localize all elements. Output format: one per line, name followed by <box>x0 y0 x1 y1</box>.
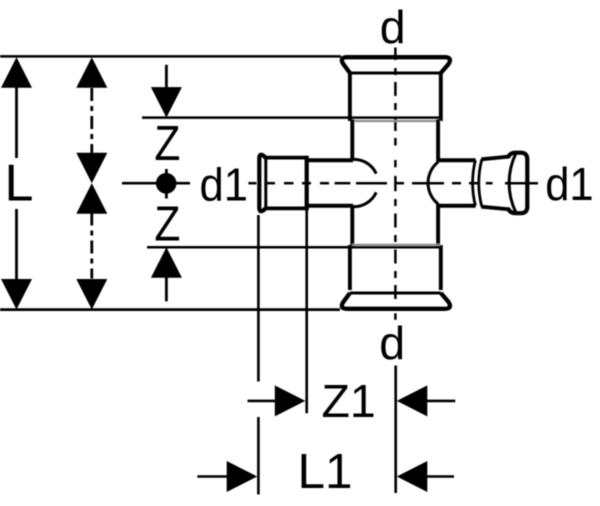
arrow L down <box>1 279 32 310</box>
fitting top socket bead inner line <box>350 72 441 75</box>
fitting right socket bead inner arc <box>509 153 516 212</box>
arrow half bottom down <box>76 279 107 310</box>
extension line socket step (x=306.7) <box>305 210 308 413</box>
dimension L line <box>15 86 18 281</box>
arrow Z top down <box>151 87 182 118</box>
fitting left socket step <box>305 156 309 211</box>
svg-text:L: L <box>5 155 34 213</box>
extension line Z top <box>142 116 441 119</box>
extension line center (x=395.7) <box>394 366 397 494</box>
dimension Z1 tail left <box>248 400 277 403</box>
fitting left socket bead <box>259 155 266 211</box>
extension line Z bottom <box>147 246 441 249</box>
fitting top socket walls <box>348 72 352 121</box>
fitting left tube stub <box>307 158 353 162</box>
svg-text:d: d <box>379 317 405 369</box>
junction arc left lower <box>352 192 376 206</box>
fitting bottom socket bead inner line <box>350 292 441 295</box>
fitting right socket cone lines <box>481 157 510 160</box>
dimension line bottom (overall bottom edge) <box>0 308 340 311</box>
arrow L up <box>1 57 32 88</box>
fitting right tube stub <box>438 158 476 162</box>
dimension half line (dash-dot) <box>90 88 93 279</box>
arrow Z1 left (points right) <box>275 385 306 416</box>
fitting body wall right lower <box>436 205 440 247</box>
fitting top socket bead <box>342 57 450 73</box>
arrow L1 left (points right) <box>227 461 258 492</box>
fitting left socket bead inner line <box>264 158 267 209</box>
fitting body wall left upper <box>350 120 354 160</box>
fitting left socket body lines <box>265 156 307 160</box>
svg-text:d1: d1 <box>200 159 249 211</box>
fitting bottom socket bead <box>342 293 450 309</box>
fitting top socket step (gray) <box>352 120 441 122</box>
dimension line top (overall top edge) <box>0 55 341 58</box>
arrow L1 right (points left) <box>397 461 428 492</box>
svg-text:Z1: Z1 <box>322 375 376 427</box>
arrow half top up <box>76 57 107 88</box>
fitting right socket mouth arcs <box>473 160 476 206</box>
dimension Z1 tail right <box>426 400 455 403</box>
fitting body wall right upper <box>436 120 440 162</box>
arrow half mid up <box>76 183 107 214</box>
dimension L1 tail left <box>197 475 227 478</box>
svg-text:d: d <box>380 1 406 53</box>
svg-text:Z: Z <box>154 117 180 171</box>
svg-text:Z: Z <box>154 197 180 251</box>
arrow half mid down <box>76 153 107 184</box>
fitting bottom socket walls <box>348 245 352 290</box>
fitting bottom socket step (gray) <box>352 244 441 246</box>
arrow Z1 right (points left) <box>397 385 428 416</box>
fitting body wall left lower <box>350 206 354 246</box>
mid axis line left <box>122 182 190 185</box>
centerline vertical <box>394 48 397 320</box>
junction arc left upper <box>352 159 376 173</box>
centerline horizontal <box>248 182 538 185</box>
svg-text:L1: L1 <box>298 444 353 499</box>
arrow Z bottom up <box>151 247 182 277</box>
svg-text:d1: d1 <box>545 158 594 210</box>
dimension L1 tail right <box>426 475 454 478</box>
extension line left end (x=258.4) <box>257 215 260 382</box>
junction arc right <box>428 162 438 204</box>
fitting right socket bead <box>509 153 528 214</box>
node dot center <box>156 173 177 194</box>
dimension Z line <box>165 65 168 301</box>
